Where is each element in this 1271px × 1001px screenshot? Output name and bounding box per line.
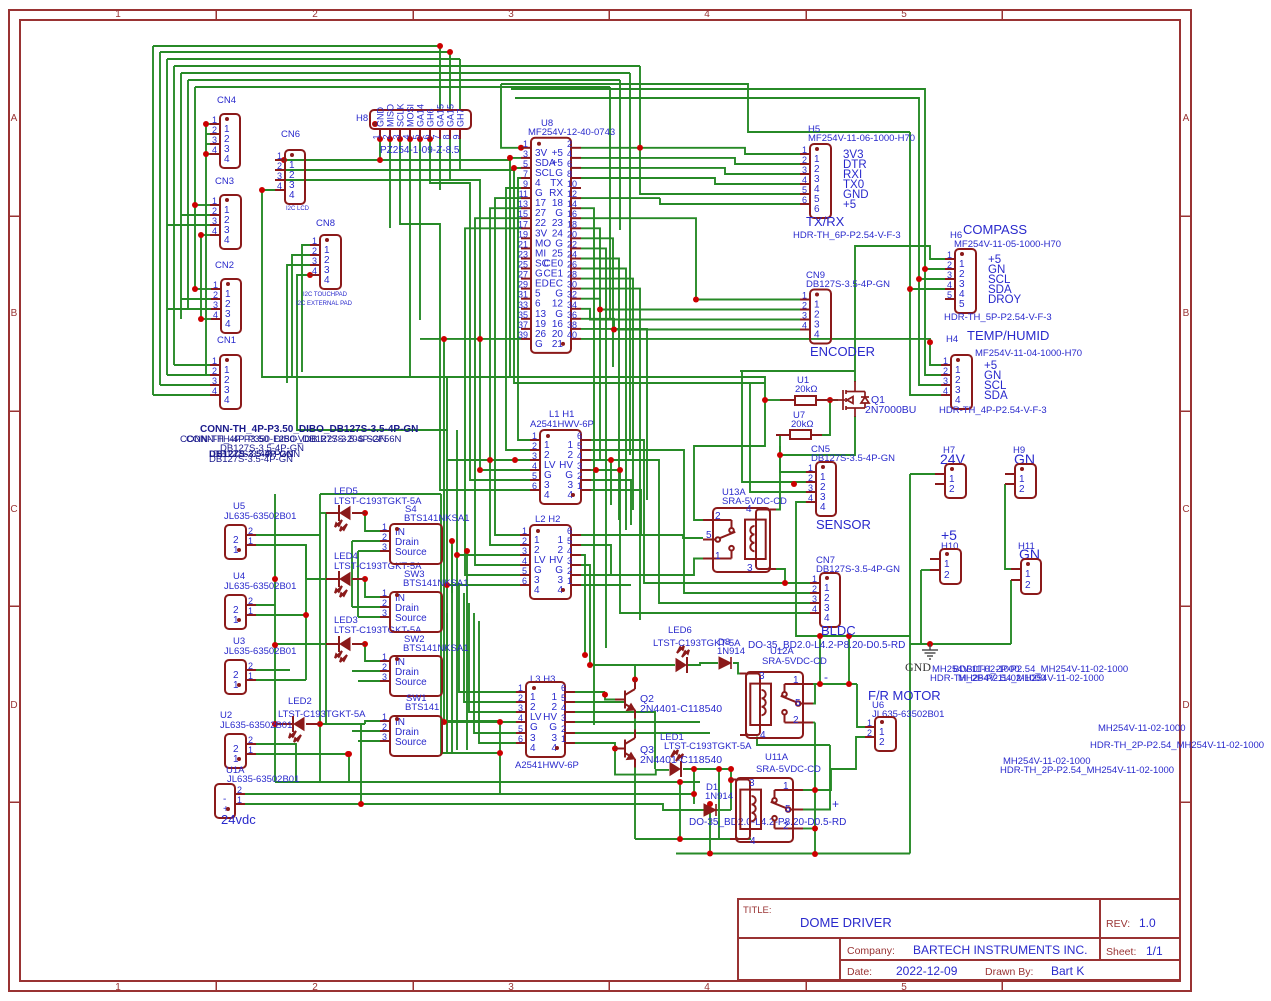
svg-text:1: 1 (248, 745, 253, 755)
wire (1010, 580, 1012, 644)
svg-text:6: 6 (577, 431, 582, 441)
svg-text:1: 1 (1025, 569, 1031, 580)
svg-text:SRA-5VDC-CD: SRA-5VDC-CD (722, 496, 787, 507)
svg-text:1: 1 (382, 712, 387, 722)
svg-text:BTS141NKSA1: BTS141NKSA1 (404, 513, 469, 524)
svg-text:6: 6 (422, 134, 432, 139)
svg-text:1.0: 1.0 (1139, 916, 1156, 930)
svg-text:1: 1 (277, 151, 282, 161)
svg-text:GND: GND (376, 107, 386, 128)
svg-text:5: 5 (561, 693, 566, 703)
svg-text:5: 5 (785, 804, 791, 815)
wire (803, 745, 830, 810)
wire (730, 769, 732, 810)
wire (634, 768, 636, 840)
wire (514, 170, 765, 383)
svg-text:A2541HWV-6P: A2541HWV-6P (530, 419, 594, 430)
svg-text:1: 1 (248, 671, 253, 681)
svg-text:2: 2 (577, 471, 582, 481)
svg-text:9: 9 (523, 179, 528, 189)
svg-text:5: 5 (802, 185, 807, 195)
svg-text:3: 3 (518, 703, 523, 713)
connector U2 JL635-63502B01 (220, 710, 292, 768)
wire (740, 370, 855, 372)
svg-text:Date:: Date: (847, 966, 872, 978)
svg-text:28: 28 (567, 270, 577, 280)
svg-text:3: 3 (277, 171, 282, 181)
svg-text:L2 H2: L2 H2 (535, 514, 560, 525)
svg-text:4: 4 (943, 386, 948, 396)
svg-text:2: 2 (943, 366, 948, 376)
wire (446, 613, 448, 721)
svg-text:2: 2 (312, 246, 317, 256)
svg-text:3: 3 (749, 778, 755, 789)
wire (187, 80, 189, 309)
svg-text:-: - (824, 670, 828, 684)
wire (854, 371, 856, 382)
svg-text:5: 5 (522, 566, 527, 576)
wire (919, 278, 945, 280)
wire (365, 579, 380, 597)
wire (256, 679, 306, 681)
transistor Q2 2N4401-C118540 (615, 681, 722, 719)
svg-text:4: 4 (212, 226, 217, 236)
svg-text:3: 3 (802, 311, 807, 321)
wire (160, 51, 450, 53)
svg-text:A: A (11, 113, 18, 124)
svg-text:2: 2 (879, 737, 885, 748)
svg-text:MISO: MISO (386, 104, 396, 127)
IC U8 MF254V-12-40-0743 (518, 118, 615, 353)
svg-text:4: 4 (212, 145, 217, 155)
svg-text:3: 3 (808, 483, 813, 493)
svg-text:GH7: GH7 (456, 108, 466, 127)
wire (805, 131, 910, 133)
svg-text:JL635-63502B01: JL635-63502B01 (227, 774, 299, 785)
svg-text:4: 4 (225, 319, 231, 330)
svg-text:MF254V-11-06-1000-H70: MF254V-11-06-1000-H70 (808, 133, 915, 144)
wire (275, 158, 521, 160)
svg-text:4: 4 (577, 451, 582, 461)
wire (206, 123, 210, 125)
svg-text:3: 3 (567, 556, 572, 566)
connector H5 TX/RX (793, 124, 915, 241)
wire (245, 793, 694, 795)
svg-text:A: A (1183, 113, 1190, 124)
wire (591, 440, 810, 583)
svg-text:BTS141: BTS141 (405, 702, 439, 713)
wire (365, 721, 380, 724)
wire (167, 374, 210, 376)
svg-text:4: 4 (746, 504, 752, 515)
svg-text:DO-35_BD2.0-L4.2-P8.20-D0.5-RD: DO-35_BD2.0-L4.2-P8.20-D0.5-RD (689, 817, 846, 828)
svg-text:6: 6 (532, 481, 537, 491)
svg-text:24: 24 (567, 250, 577, 260)
wire (581, 319, 800, 330)
wire (776, 446, 780, 510)
svg-text:1: 1 (382, 588, 387, 598)
wire (181, 214, 210, 216)
svg-text:1: 1 (523, 139, 528, 149)
connector CN6 I2C LCD (275, 129, 310, 212)
wire (152, 46, 154, 395)
wire (459, 583, 516, 692)
wire (499, 722, 501, 794)
svg-text:GND: GND (905, 660, 931, 674)
wire (306, 578, 326, 580)
svg-text:3: 3 (577, 461, 582, 471)
wire (348, 754, 350, 782)
svg-text:12: 12 (567, 189, 577, 199)
svg-text:BARTECH INSTRUMENTS INC.: BARTECH INSTRUMENTS INC. (913, 943, 1087, 957)
connector H6 COMPASS (944, 222, 1061, 323)
wire (683, 768, 731, 770)
wire (441, 494, 500, 753)
wire (430, 139, 530, 480)
svg-text:SRA-5VDC-CD: SRA-5VDC-CD (756, 764, 821, 775)
wire (921, 569, 930, 571)
wire (446, 430, 448, 753)
svg-text:LED2: LED2 (288, 696, 312, 707)
svg-text:MH254V-11-02-1000: MH254V-11-02-1000 (1098, 723, 1186, 734)
wire (358, 680, 380, 682)
svg-text:2: 2 (944, 570, 950, 581)
svg-text:G: G (549, 722, 557, 733)
svg-text:1: 1 (715, 551, 721, 562)
svg-text:5: 5 (901, 9, 907, 20)
svg-text:HDR-TH_5P-P2.54-V-F-3: HDR-TH_5P-P2.54-V-F-3 (944, 312, 1052, 323)
svg-text:2N7000BU: 2N7000BU (865, 404, 916, 416)
svg-text:2: 2 (312, 982, 318, 993)
svg-text:SDA: SDA (984, 390, 1008, 402)
wire (910, 289, 941, 395)
svg-text:2: 2 (561, 724, 566, 734)
wire (320, 493, 441, 495)
wire (830, 399, 838, 401)
svg-text:3: 3 (508, 982, 514, 993)
switch S4 BTS141NKSA1 (380, 504, 469, 564)
optocoupler L3 H3 A2541HWV-6P (515, 674, 579, 771)
svg-text:H10: H10 (941, 541, 958, 552)
relay U13A SRA-5VDC-CD (703, 487, 787, 574)
svg-text:HDR-TH_2P-P2.54_MH254V-11-02-1: HDR-TH_2P-P2.54_MH254V-11-02-1000 (1000, 765, 1174, 776)
svg-text:1: 1 (382, 652, 387, 662)
wire (515, 98, 941, 385)
svg-text:2: 2 (212, 125, 217, 135)
svg-text:4: 4 (812, 604, 817, 614)
wire (200, 235, 202, 319)
svg-text:4: 4 (820, 502, 826, 513)
wire (694, 400, 765, 520)
wire (201, 234, 210, 236)
wire (400, 139, 530, 490)
svg-text:1: 1 (212, 115, 217, 125)
svg-text:BTS141NKSA1: BTS141NKSA1 (403, 578, 468, 589)
wire (459, 59, 461, 110)
wire (581, 329, 647, 500)
wire (475, 218, 521, 565)
svg-text:I2C TOUCHPAD: I2C TOUCHPAD (303, 292, 348, 298)
svg-text:3: 3 (532, 451, 537, 461)
svg-text:H8: H8 (356, 113, 368, 124)
svg-text:PZ254-1-09-Z-8.5: PZ254-1-09-Z-8.5 (380, 145, 460, 156)
connector U6 F/R MOTOR (865, 688, 944, 751)
svg-text:5: 5 (567, 536, 572, 546)
wire (399, 129, 401, 139)
switch SW1 BTS141 (380, 693, 442, 756)
svg-text:1: 1 (943, 356, 948, 366)
svg-text:1: 1 (812, 574, 817, 584)
svg-text:2: 2 (237, 785, 242, 795)
wire (275, 643, 326, 645)
svg-text:L3 H3: L3 H3 (530, 674, 555, 685)
svg-text:3: 3 (212, 376, 217, 386)
wire (352, 670, 380, 672)
svg-text:4: 4 (544, 490, 550, 501)
svg-text:ENCODER: ENCODER (810, 344, 875, 359)
wire (429, 129, 431, 139)
svg-text:25: 25 (518, 260, 528, 270)
svg-text:18: 18 (567, 219, 577, 229)
wire (750, 383, 806, 492)
svg-text:2N4401-C118540: 2N4401-C118540 (640, 754, 722, 766)
svg-text:3: 3 (212, 135, 217, 145)
svg-text:3: 3 (382, 672, 387, 682)
net label cluster near GND (930, 664, 1128, 684)
svg-text:4: 4 (532, 461, 537, 471)
svg-text:1N914: 1N914 (705, 791, 733, 802)
svg-text:3: 3 (382, 608, 387, 618)
wire (581, 259, 619, 521)
svg-text:2: 2 (567, 566, 572, 576)
svg-text:40: 40 (567, 330, 577, 340)
svg-text:4: 4 (402, 134, 412, 139)
wire (419, 139, 421, 320)
svg-text:1: 1 (867, 718, 872, 728)
svg-text:Source: Source (395, 547, 427, 558)
svg-text:8: 8 (567, 169, 572, 179)
svg-text:GA15: GA15 (446, 104, 456, 127)
wire (676, 853, 910, 855)
svg-text:4: 4 (814, 330, 820, 341)
svg-text:4: 4 (561, 703, 566, 713)
optocoupler L2 H2 (520, 514, 581, 599)
svg-text:3: 3 (382, 732, 387, 742)
svg-text:7: 7 (432, 134, 442, 139)
wire (509, 160, 511, 377)
svg-text:JL635-63502B01: JL635-63502B01 (872, 709, 944, 720)
wire (575, 742, 615, 744)
svg-text:2: 2 (802, 301, 807, 311)
svg-text:6: 6 (802, 195, 807, 205)
svg-text:CN4: CN4 (217, 95, 236, 106)
svg-text:5: 5 (947, 290, 952, 300)
wire (635, 838, 751, 840)
svg-text:C: C (10, 504, 17, 515)
wire (581, 208, 594, 725)
svg-text:2: 2 (793, 715, 799, 726)
wire (581, 565, 675, 665)
svg-text:36: 36 (567, 310, 577, 320)
svg-text:1/1: 1/1 (1146, 944, 1163, 958)
wire (581, 545, 611, 575)
wire (451, 541, 453, 753)
wire (201, 318, 211, 320)
wire (457, 554, 520, 556)
wire (469, 603, 516, 712)
svg-text:20kΩ: 20kΩ (791, 419, 813, 430)
svg-text:20kΩ: 20kΩ (795, 384, 817, 395)
svg-text:MF254V-12-40-0743: MF254V-12-40-0743 (528, 127, 615, 138)
wire (581, 584, 631, 586)
resistor U7 20k (776, 410, 822, 439)
svg-text:4: 4 (224, 395, 230, 406)
svg-text:5: 5 (577, 441, 582, 451)
svg-text:1: 1 (212, 356, 217, 366)
connector H8 PZ254-1-09-Z-8.5 (356, 103, 471, 156)
svg-text:6: 6 (567, 526, 572, 536)
wire (320, 512, 326, 514)
svg-text:2: 2 (382, 598, 387, 608)
wire (319, 494, 321, 782)
wire (166, 59, 168, 375)
svg-text:32: 32 (567, 290, 577, 300)
svg-text:G: G (530, 722, 538, 733)
svg-text:2: 2 (212, 206, 217, 216)
svg-text:4: 4 (312, 266, 317, 276)
wire (351, 541, 353, 607)
transistor Q3 2N4401-C118540 (615, 730, 722, 768)
optocoupler L1 H1 A2541HWV-6P (530, 409, 594, 504)
svg-text:3: 3 (812, 594, 817, 604)
wire (167, 308, 211, 310)
wire (687, 663, 718, 665)
svg-text:3: 3 (947, 270, 952, 280)
LED6 LTST-C193TGKT-5A (653, 625, 741, 673)
wire (581, 178, 800, 184)
wire (609, 87, 611, 320)
wire (910, 132, 945, 289)
svg-text:1: 1 (802, 145, 807, 155)
wire (730, 779, 731, 781)
svg-text:4: 4 (802, 321, 807, 331)
svg-text:1: 1 (372, 134, 382, 139)
svg-text:B: B (1183, 308, 1190, 319)
connector CN9 ENCODER (800, 270, 890, 359)
svg-text:4: 4 (567, 546, 572, 556)
wire (256, 534, 320, 536)
wire (275, 180, 530, 470)
LED4 LTST-C193TGKT-5A (326, 551, 422, 597)
wire (748, 838, 750, 841)
wire (275, 781, 700, 783)
svg-text:HDR-TH_4P-P2.54-V-F-3: HDR-TH_4P-P2.54-V-F-3 (939, 405, 1047, 416)
svg-text:MH254V-11-02-1000: MH254V-11-02-1000 (958, 673, 1046, 684)
svg-text:14: 14 (567, 199, 577, 209)
svg-text:5: 5 (795, 698, 801, 709)
wire (153, 45, 440, 47)
wire (174, 364, 210, 366)
svg-text:JL635-63502B01: JL635-63502B01 (224, 581, 296, 592)
wire (358, 550, 380, 552)
wire (619, 80, 621, 230)
wire (803, 737, 865, 790)
wire (305, 545, 307, 680)
wire (634, 719, 636, 730)
svg-text:3: 3 (747, 563, 753, 574)
svg-text:Source: Source (395, 613, 427, 624)
svg-text:DOME DRIVER: DOME DRIVER (800, 915, 892, 930)
svg-text:1: 1 (237, 795, 242, 805)
svg-text:1: 1 (115, 982, 121, 993)
connector U5 JL635-63502B01 (224, 501, 296, 559)
svg-text:2: 2 (248, 526, 253, 536)
svg-text:TITLE:: TITLE: (743, 905, 772, 916)
wire (629, 73, 631, 455)
svg-text:I2C LCD: I2C LCD (286, 206, 310, 212)
switch SW3 BTS141NKSA1 (380, 569, 468, 632)
svg-text:3: 3 (802, 165, 807, 175)
svg-text:4: 4 (947, 280, 952, 290)
svg-text:2: 2 (382, 134, 392, 139)
svg-text:2: 2 (277, 161, 282, 171)
svg-text:2: 2 (532, 441, 537, 451)
svg-text:3: 3 (212, 216, 217, 226)
svg-text:8: 8 (442, 134, 452, 139)
svg-text:21: 21 (518, 239, 528, 249)
wire (195, 204, 210, 206)
wire (742, 371, 806, 482)
wire (581, 248, 606, 648)
wire (581, 289, 640, 620)
wire (910, 473, 935, 475)
svg-text:BLDC: BLDC (821, 623, 856, 638)
svg-text:2: 2 (518, 693, 523, 703)
svg-text:17: 17 (518, 219, 528, 229)
diode D8 1N914 (717, 637, 745, 669)
wire (511, 89, 941, 375)
svg-text:3: 3 (522, 546, 527, 556)
svg-text:1: 1 (577, 481, 582, 491)
connector CN3 (210, 176, 241, 249)
resistor U1 20k (780, 375, 830, 405)
svg-text:JL635-63502B01: JL635-63502B01 (224, 646, 296, 657)
wire (256, 669, 290, 671)
svg-text:4: 4 (324, 275, 330, 286)
header H11 GN (1011, 541, 1041, 594)
wire (167, 224, 210, 226)
wire (447, 584, 520, 586)
wire (466, 551, 468, 750)
wire (855, 246, 945, 371)
wire (581, 299, 800, 310)
relay U11A SRA-5VDC-CD (730, 752, 839, 847)
wire (718, 769, 720, 839)
svg-text:JL635-63502B01: JL635-63502B01 (220, 720, 292, 731)
svg-text:2: 2 (213, 290, 218, 300)
svg-text:Company:: Company: (847, 945, 895, 957)
wire (501, 84, 521, 148)
svg-text:5: 5 (706, 530, 712, 541)
wire (443, 339, 445, 722)
svg-text:4: 4 (534, 585, 540, 596)
wire (195, 86, 610, 88)
wire (501, 84, 805, 132)
svg-text:I2C EXTERNAL PAD: I2C EXTERNAL PAD (296, 301, 353, 307)
svg-text:2: 2 (1019, 484, 1025, 495)
wire (857, 684, 865, 727)
wire (575, 701, 625, 703)
